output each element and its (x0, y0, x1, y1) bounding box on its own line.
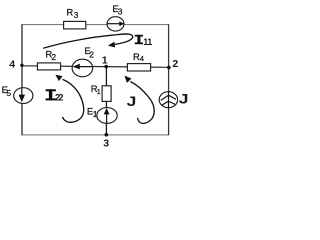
svg-text:5: 5 (6, 88, 11, 98)
svg-text:3: 3 (118, 7, 123, 17)
svg-text:1: 1 (93, 109, 98, 119)
svg-text:11: 11 (143, 37, 152, 47)
svg-text:1: 1 (97, 89, 101, 96)
svg-text:2: 2 (89, 50, 94, 60)
svg-text:J: J (127, 95, 137, 110)
svg-text:3: 3 (103, 137, 109, 148)
svg-text:2: 2 (51, 52, 56, 62)
svg-text:J: J (179, 92, 189, 107)
svg-text:4: 4 (140, 54, 144, 63)
svg-text:R: R (66, 7, 73, 18)
svg-text:3: 3 (74, 10, 79, 20)
svg-text:2: 2 (58, 92, 63, 102)
svg-text:1: 1 (102, 54, 108, 66)
svg-text:2: 2 (172, 58, 178, 70)
svg-text:4: 4 (9, 59, 15, 71)
